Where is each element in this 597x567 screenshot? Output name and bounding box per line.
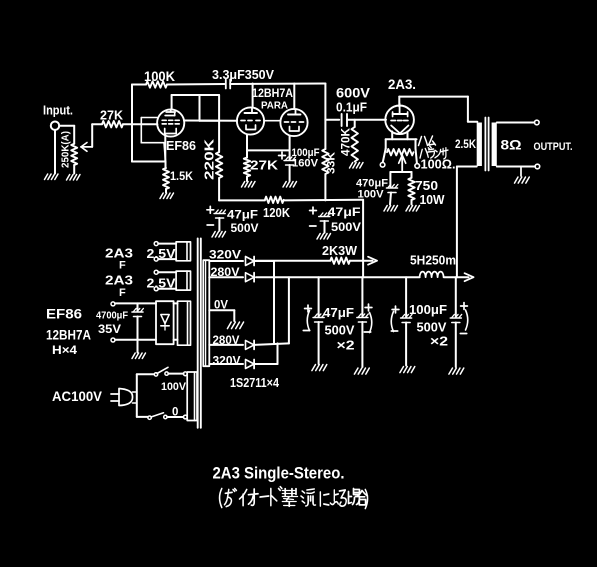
arrow (rail lower) [465,273,474,281]
ground (750) [406,206,420,212]
secondary top wire [497,122,535,124]
wire D4 out [255,343,278,364]
title text [213,465,345,483]
svg-text:EF86: EF86 [166,139,196,153]
vacuum tube V1 EF86 [157,109,196,153]
wire balancer T [390,171,411,173]
wire B+ feed down [362,200,364,278]
potentiometer VR1 250K(A) [60,126,78,174]
svg-text:1.5K: 1.5K [170,169,193,183]
resistor R7 470K [341,120,358,162]
output transformer core [485,118,488,171]
diode D2 1S2711 [246,273,255,282]
label hum balancer (balancer) [420,146,448,159]
label 2.5V (1) [147,246,176,261]
svg-text:8Ω: 8Ω [501,138,522,153]
label 2.5V (2) [147,276,176,291]
svg-text:EF86: EF86 [46,306,82,322]
svg-text:33K: 33K [326,152,338,174]
svg-text:100V: 100V [358,189,385,201]
EF86 cathode lead [164,134,166,162]
label OUTPUT [534,141,573,153]
svg-text:Input.: Input. [43,104,73,118]
svg-text:500V: 500V [331,220,361,234]
vacuum tube V2 12BH7A-a [237,107,264,134]
B+ rail lower [256,276,469,278]
wire jack to ground [54,130,56,174]
choke L1 5H250mA [410,254,456,278]
filament winding 1 [158,242,190,261]
svg-text:2K3W: 2K3W [322,243,358,258]
svg-text:470K: 470K [341,127,353,156]
capacitor C11 100uF 500V [450,277,467,367]
svg-text:F: F [119,260,126,272]
wire preamp B+ [219,199,363,202]
capacitor C9 47uF 500V [357,277,372,367]
filament terminal F2 [415,164,420,169]
tap wire 280V top [209,276,243,278]
capacitor C4 470uF 100V [356,172,398,205]
label 280V (top) [211,265,240,279]
capacitor C3 0.1uF 600V [336,86,386,127]
label 2K3W [322,243,358,258]
ground (C7) [132,353,146,359]
filament terminal F1 [380,163,385,168]
label 100ohm [421,158,456,172]
svg-text:100K: 100K [144,69,175,84]
capacitor C10 100uF 500V [391,277,412,365]
12BH7A cathode wires [247,135,290,160]
svg-text:500V: 500V [325,323,355,338]
label 2.5K [455,137,476,151]
12BH7A plate leads [253,84,295,110]
svg-text:100Ω.: 100Ω. [421,158,456,172]
ground (1.5K) [160,193,174,199]
label 100uF 500V x2 [409,302,448,349]
svg-text:600V: 600V [336,86,370,101]
terminal (w1b) [154,257,158,261]
svg-text:0: 0 [172,407,178,419]
ground (C8) [312,365,327,371]
tap wire 320V bot [209,363,243,365]
ground (secondary) [515,167,530,184]
label 100V [161,381,187,393]
resistor R9 120K [263,197,290,220]
heater terminals [111,302,156,342]
power transformer core [198,238,201,427]
terminal (w2b) [154,287,158,291]
svg-text:×2: ×2 [430,334,448,349]
svg-text:160V: 160V [292,158,319,170]
ground (470K) [350,163,364,169]
wire B+ vertical [324,84,326,201]
svg-text:2A3.: 2A3. [388,76,416,92]
capacitor C1 3.3uF 350V [212,67,325,89]
label 280V (bot) [213,333,240,347]
resistor R2 1.5K [163,162,193,193]
svg-text:5H250m: 5H250m [410,254,456,268]
input jack J1 [51,122,74,130]
12BH7A grid tie [264,120,280,122]
diode D1 1S2711 [246,257,255,266]
svg-text:250K(A): 250K(A) [60,131,72,168]
svg-text:500V: 500V [231,221,259,235]
svg-text:AC100V: AC100V [52,388,103,404]
svg-text:2A3 Single-Stereo.: 2A3 Single-Stereo. [213,465,345,483]
svg-text:120K: 120K [263,206,290,220]
label 8ohm [501,138,522,153]
svg-text:H×4: H×4 [52,343,77,357]
svg-text:1S2711×4: 1S2711×4 [230,375,280,390]
ground (470uF) [384,206,398,212]
pot wiper arrow [81,124,92,151]
ground (jack) [45,174,59,180]
wire grid EF86 [92,123,157,125]
label 0 [172,407,178,419]
bridge rectifier D5 [156,301,174,344]
svg-text:47μF: 47μF [323,305,354,320]
output terminal top [535,120,540,125]
svg-text:2A3: 2A3 [105,246,133,261]
svg-text:0.1μF: 0.1μF [336,101,367,115]
ground (C10) [400,367,415,373]
diode D3 1S2711 [246,340,255,349]
wire D3 out [255,343,289,345]
tap wire 280V bot [209,344,243,346]
svg-text:35V: 35V [98,324,121,336]
filament winding 2 [158,271,190,290]
svg-text:27K: 27K [100,109,123,123]
label 12BH7A PARA [252,88,293,112]
rectifier bus wires [274,261,289,343]
svg-text:750: 750 [415,179,438,193]
svg-text:4700μF: 4700μF [96,310,129,322]
label 320V (top) [209,248,241,262]
svg-text:100μF: 100μF [409,302,447,317]
terminal (w1a) [154,242,158,246]
switch S1b [148,413,184,420]
svg-text:47μF: 47μF [227,208,258,222]
label AC100V [52,388,103,404]
resistor R3 100K feedback [132,69,225,88]
label hum balancer (hamu) [419,136,436,146]
ground (27K) [242,182,256,188]
svg-text:47μF: 47μF [328,205,361,219]
resistor R8 750 10W [408,172,444,207]
resistor R6 33K [322,149,337,174]
2A3 plate wire [399,97,477,122]
hum balancer VR2 100ohm [387,149,414,172]
output transformer T1 primary [477,123,482,167]
heater winding [174,301,191,345]
terminal (w2a) [154,270,158,274]
resistor R5 27K cathode [244,158,278,182]
wire D1 out [255,260,275,262]
output transformer secondary [492,123,497,167]
ground (C11) [449,368,464,374]
ground (pot) [67,175,81,181]
label 1S2711x4 [230,375,280,390]
svg-text:220K: 220K [203,139,217,180]
resistor R1 27K [100,109,123,128]
svg-text:PARA: PARA [261,100,288,112]
label 2A3 [388,76,416,92]
ground (C9) [354,368,369,374]
primary winding [187,372,197,421]
svg-text:×2: ×2 [337,338,355,353]
label 0V [214,298,228,312]
svg-text:10W: 10W [420,193,445,207]
svg-text:OUTPUT.: OUTPUT. [534,141,573,153]
ground (C6) [317,234,331,240]
EF86 cathode tie [141,118,165,162]
ground (C5) [212,232,226,238]
ground (100uF) [283,182,297,188]
vacuum tube V4 2A3 [385,104,414,135]
svg-text:3.3μF350V: 3.3μF350V [212,67,274,82]
diode D4 1S2711 [246,360,255,369]
B+ rail upper [256,260,373,262]
wire coupling [325,119,339,121]
EF86 plate rect wire [172,95,220,121]
svg-text:12BH7A: 12BH7A [252,88,293,100]
label 320V (bot) [213,354,241,368]
svg-text:100V: 100V [161,381,187,393]
label 2A3 F (1) [105,246,133,272]
subtitle text (diode rectification note) [220,487,368,509]
2A3 filament legs [383,132,417,164]
svg-text:27K: 27K [250,159,278,173]
primary terminals [183,372,187,419]
svg-text:2A3: 2A3 [105,273,133,288]
resistor R4 220K [203,95,223,200]
switch S1a [154,367,183,376]
svg-text:F: F [119,287,126,299]
svg-text:320V: 320V [209,248,241,262]
vacuum tube V3 12BH7A-b [280,109,307,136]
label 2A3 F (2) [105,273,133,300]
svg-text:2.5K: 2.5K [455,137,476,151]
AC wires [133,374,155,417]
tap wire 0V [209,310,234,321]
feedback node wire [132,85,166,162]
capacitor C8 47uF 500V [303,277,324,364]
svg-text:500V: 500V [417,320,447,335]
svg-text:320V: 320V [213,354,241,368]
svg-text:12BH7A: 12BH7A [46,328,91,343]
capacitor C7 4700uF 35V [96,303,143,352]
output terminal bottom [535,164,540,169]
EF86 plate lead [171,95,173,109]
capacitor C6 47uF 500V [310,205,361,234]
secondary bottom wire [497,166,535,168]
label 47uF 500V x2 [323,305,355,353]
HV winding [203,260,209,366]
capacitor C2 100uF 160V [279,147,320,181]
AC plug [111,389,133,406]
tap wire 320V top [209,260,243,262]
capacitor C5 47uF 500V [207,206,259,235]
wire grid 12BH7A [184,120,237,122]
label Input [43,104,73,118]
arrow (rail upper) [368,257,377,265]
ground (0V) [227,322,243,329]
resistor R10 2K 3W [330,258,350,264]
primary bottom wire [457,167,477,278]
label EF86 12BH7A Hx4 [46,306,91,358]
